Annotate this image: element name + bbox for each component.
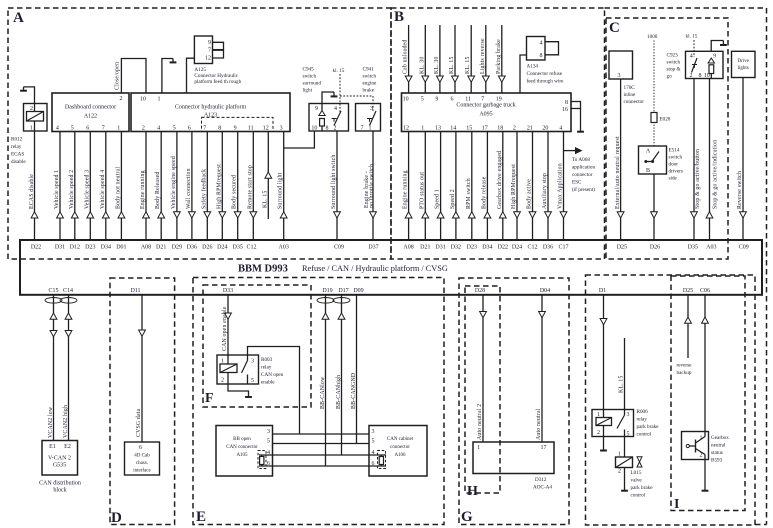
B593 internal symbol [686, 444, 689, 447]
svg-text:KL. 30: KL. 30 [434, 56, 440, 74]
switch C941 box [356, 104, 381, 132]
svg-text:High RPMrequest: High RPMrequest [511, 164, 517, 209]
svg-text:21: 21 [527, 125, 533, 131]
connector A105 box [216, 426, 273, 477]
svg-text:D34: D34 [101, 244, 111, 250]
svg-text:8: 8 [565, 100, 568, 106]
arrow down reverse switch [740, 212, 747, 218]
wire Close/open bridge [121, 59, 146, 94]
A125 jumper bracket 9-7 [213, 42, 224, 49]
svg-text:B: B [394, 9, 404, 25]
arrow down CAN open enable [225, 313, 232, 319]
svg-text:5: 5 [173, 125, 176, 131]
svg-text:surround: surround [303, 81, 322, 87]
arrow down E514 wire [651, 212, 658, 218]
wire CAN row pin4 right [369, 454, 386, 456]
svg-text:6: 6 [86, 125, 89, 131]
branch to A068 ESC [564, 150, 576, 152]
A095 pins 8-16 jumper to feed [571, 102, 581, 109]
svg-text:side: side [669, 176, 678, 182]
svg-text:3: 3 [618, 73, 621, 79]
svg-text:A134: A134 [527, 64, 539, 70]
wire KL. 15 into A095 pin 11 [470, 25, 472, 93]
wire RPM switch to bus [471, 132, 473, 241]
svg-text:A: A [646, 149, 651, 155]
terminator dashed box A105 [258, 451, 266, 469]
wire Vehicle engine speed [176, 132, 178, 241]
svg-text:1: 1 [421, 125, 424, 131]
arrow down KL. 15 [468, 76, 475, 82]
arrow down VCAN2 low [50, 331, 57, 337]
arrow up Gearbox drive engaged [499, 212, 506, 218]
outer frame top-right [605, 7, 767, 9]
svg-text:Close/open: Close/open [115, 62, 121, 90]
svg-text:D26: D26 [650, 244, 660, 250]
svg-text:Connector refuse: Connector refuse [527, 70, 563, 77]
arrow up BB-CANhigh [338, 313, 345, 319]
svg-text:14: 14 [450, 125, 456, 131]
svg-text:9: 9 [234, 125, 237, 131]
svg-text:D11: D11 [130, 288, 140, 294]
feed symbol above R012 [23, 87, 25, 90]
arrow up RPM switch [468, 212, 475, 218]
svg-text:12: 12 [263, 125, 269, 131]
svg-text:6: 6 [139, 445, 142, 451]
C945 indicator column [321, 104, 323, 111]
R006 ground [603, 437, 605, 450]
wire A125 drop to A123 [187, 58, 195, 93]
wire Engine running [145, 132, 147, 241]
arrow dn Vmax Application [560, 212, 567, 218]
svg-text:D01: D01 [116, 244, 126, 250]
wire Vehicle speed 4 [105, 132, 107, 241]
svg-text:go: go [667, 74, 673, 80]
svg-text:control: control [637, 432, 652, 438]
svg-text:PTO status out: PTO status out [419, 172, 425, 209]
svg-text:1: 1 [597, 412, 600, 418]
svg-text:A08: A08 [403, 244, 413, 250]
svg-text:D31: D31 [55, 244, 65, 250]
svg-text:switch: switch [363, 74, 377, 80]
bus module BBM D993 box [20, 240, 762, 295]
svg-text:D25: D25 [683, 288, 693, 294]
arrow down auto neutral [539, 312, 546, 318]
wire C941 pin1 to D37 [372, 131, 374, 240]
wire Body active to bus [532, 132, 534, 241]
arrow down engine brake [370, 212, 377, 218]
arrow dn Safety feedback [204, 212, 211, 218]
connector A106 box [369, 426, 427, 477]
wire PTO status out to bus [424, 132, 426, 241]
svg-text:High RPMrequest: High RPMrequest [216, 164, 222, 209]
wire Surround light pin3 to A03 [283, 132, 285, 241]
svg-text:8: 8 [218, 125, 221, 131]
wire feed to R012 pin 2 [24, 87, 35, 104]
svg-text:control: control [631, 493, 646, 499]
svg-text:1: 1 [117, 125, 120, 131]
svg-text:A095: A095 [479, 112, 492, 118]
svg-text:C12: C12 [246, 244, 256, 250]
svg-text:4: 4 [157, 125, 160, 131]
svg-text:5: 5 [251, 378, 254, 384]
svg-text:Vehicle speed 2: Vehicle speed 2 [69, 170, 75, 209]
svg-text:D35: D35 [688, 244, 698, 250]
svg-text:Wall connection: Wall connection [186, 168, 192, 209]
svg-text:BB-CANGND: BB-CANGND [351, 373, 357, 409]
svg-text:1: 1 [369, 125, 372, 131]
wire C945 pin2 to C09 [336, 131, 338, 240]
svg-text:G: G [461, 509, 473, 525]
wire Gearbox drive engaged to bus [502, 132, 504, 241]
svg-text:brake: brake [363, 88, 375, 94]
svg-text:5: 5 [372, 439, 375, 445]
svg-text:A106: A106 [394, 453, 406, 458]
svg-text:BB-CANhigh: BB-CANhigh [336, 375, 342, 409]
svg-text:(if present): (if present) [572, 186, 595, 193]
wire C923 pin9 to feed [711, 41, 723, 52]
wire Vmax Application to bus [563, 132, 565, 241]
wire C923 pin10 to A03 [709, 79, 711, 241]
svg-text:B593: B593 [711, 458, 723, 464]
svg-text:12: 12 [403, 125, 409, 131]
switch C923 box [686, 51, 724, 78]
wire KL15 stub from A123 pin12 [267, 132, 269, 220]
section frame H [465, 286, 500, 493]
svg-text:L015: L015 [631, 470, 642, 476]
svg-text:D31: D31 [435, 244, 445, 250]
svg-text:17: 17 [541, 445, 547, 451]
svg-text:CAN connector: CAN connector [226, 445, 258, 450]
svg-text:Dashboard connector: Dashboard connector [65, 105, 116, 111]
arrow down Cab unloaded [405, 76, 412, 82]
svg-text:interface: interface [133, 469, 151, 474]
svg-text:Vehicle speed 1: Vehicle speed 1 [54, 170, 60, 209]
relay R012 coil [27, 112, 44, 122]
svg-text:block: block [53, 488, 66, 494]
svg-text:R006: R006 [637, 409, 649, 415]
svg-text:feed through wire: feed through wire [527, 78, 565, 85]
wire VCAN2 low C15 [53, 295, 55, 441]
svg-text:Gearbox drive engaged: Gearbox drive engaged [497, 151, 503, 209]
wire Body not neutral [120, 132, 122, 241]
wire Auxiliary stop to bus [547, 132, 549, 241]
svg-text:D33: D33 [223, 288, 233, 294]
A134 jumper bracket [545, 42, 559, 55]
arrow up Engine running [405, 212, 412, 218]
svg-text:C09: C09 [334, 244, 344, 250]
svg-text:3: 3 [627, 412, 630, 418]
svg-text:7: 7 [361, 125, 364, 131]
svg-text:C945: C945 [303, 67, 315, 73]
wire branch A123 pin3 to C945 pin10 [284, 131, 315, 148]
svg-text:C09: C09 [739, 244, 749, 250]
svg-text:5: 5 [71, 125, 74, 131]
wire reverse backup D25 [687, 295, 689, 358]
wire KL. 30 into A095 pin 9 [439, 25, 441, 93]
svg-text:9: 9 [208, 40, 211, 46]
arrow up KL15 stub [265, 172, 272, 178]
svg-text:2: 2 [334, 125, 337, 131]
svg-text:D37: D37 [368, 244, 378, 250]
svg-text:D26: D26 [202, 244, 212, 250]
svg-text:D21: D21 [156, 244, 166, 250]
svg-text:D22: D22 [498, 244, 508, 250]
svg-text:2: 2 [597, 430, 600, 436]
svg-text:door: door [669, 162, 679, 168]
svg-text:D12: D12 [70, 244, 80, 250]
arrow up BB-CANlow [322, 313, 329, 319]
arrow up Vehicle speed 2 [71, 212, 78, 218]
svg-text:E2: E2 [64, 444, 71, 450]
svg-text:D17: D17 [338, 288, 348, 294]
feed symbol near A123 pin 1 [172, 59, 174, 62]
svg-text:A03: A03 [706, 244, 716, 250]
arrow up ECAS disable [31, 212, 38, 218]
wire Vehicle speed 3 [89, 132, 91, 241]
svg-text:D312: D312 [535, 477, 547, 483]
svg-text:relay: relay [261, 365, 272, 371]
wire Vehicle speed 2 [74, 132, 76, 241]
svg-text:4D Cab: 4D Cab [134, 454, 150, 459]
svg-text:Auxiliary stop: Auxiliary stop [542, 173, 548, 209]
svg-text:I: I [674, 497, 679, 512]
relay R006 box [592, 410, 634, 437]
svg-text:backup: backup [677, 370, 692, 376]
arrow down VCAN2 high [65, 331, 72, 337]
svg-text:KL. 15: KL. 15 [465, 56, 471, 74]
svg-text:B: B [646, 168, 650, 174]
section frame D [110, 278, 175, 525]
R006 coil [596, 418, 612, 426]
svg-text:chass.: chass. [136, 461, 148, 466]
arrow up Speed 1 [437, 212, 444, 218]
svg-text:CAN distribution: CAN distribution [39, 481, 81, 487]
svg-text:2: 2 [221, 378, 224, 384]
svg-text:kl. 15: kl. 15 [333, 68, 345, 74]
arrow down external/auto neutral [617, 212, 624, 218]
svg-text:connector: connector [572, 172, 593, 178]
arrow up Body release [484, 212, 491, 218]
section frame right (park brake) [586, 275, 756, 525]
wire external/auto neutral request to D25 [620, 79, 622, 240]
svg-text:20: 20 [542, 125, 548, 131]
svg-text:Vmax Application: Vmax Application [558, 163, 564, 209]
wire KL. 15 into A095 pin 6 [454, 25, 456, 93]
svg-text:D09: D09 [353, 288, 363, 294]
svg-text:Speed 1: Speed 1 [435, 189, 441, 209]
relay R012 box [24, 104, 48, 132]
arrow dn Auxiliary stop [545, 212, 552, 218]
terminator resistor A106 [380, 455, 382, 466]
svg-text:C17: C17 [558, 244, 568, 250]
wire R003 pin3 to A105 pin3 [248, 347, 300, 435]
connector A122 box [52, 93, 129, 132]
arrow down surround light switch [334, 212, 341, 218]
svg-text:10: 10 [311, 125, 317, 131]
svg-text:Auto neutral 2: Auto neutral 2 [477, 404, 483, 440]
svg-text:KL. 15: KL. 15 [449, 56, 455, 74]
svg-text:Connector garbage truck: Connector garbage truck [456, 103, 515, 109]
wire Lights reverse into A095 pin 7 [485, 25, 487, 93]
arrow dn Body active [529, 212, 536, 218]
svg-text:D19: D19 [322, 288, 332, 294]
svg-text:3: 3 [370, 106, 373, 112]
svg-text:CAN open enable: CAN open enable [222, 306, 228, 351]
svg-text:KL. 15: KL. 15 [619, 375, 625, 393]
svg-text:Auto neutral: Auto neutral [536, 408, 542, 440]
svg-text:VCAN2 high: VCAN2 high [63, 405, 69, 438]
svg-text:Lights reverse: Lights reverse [480, 38, 486, 74]
outer frame right edge [766, 8, 768, 525]
C945 switch lever [334, 111, 341, 126]
wire Wall connection [191, 132, 193, 241]
svg-text:Surround light: Surround light [278, 172, 284, 209]
svg-text:C923: C923 [667, 53, 679, 59]
wire CAN row pin6 [259, 465, 369, 467]
svg-text:2: 2 [120, 96, 123, 102]
wire CAN row pin5 [273, 443, 370, 445]
svg-text:E1: E1 [49, 444, 56, 450]
switch E514 box [639, 146, 667, 174]
svg-text:D35: D35 [233, 244, 243, 250]
outer frame bottom-right [755, 524, 767, 526]
svg-text:Vehicle engine speed: Vehicle engine speed [171, 156, 177, 209]
wire VCAN2 high C14 [68, 295, 70, 441]
svg-text:C14: C14 [63, 288, 73, 294]
kl15 dashed wire into C945 [339, 74, 341, 112]
svg-text:1: 1 [30, 126, 33, 132]
wire Engine running to bus [408, 132, 410, 241]
svg-text:KL. 15: KL. 15 [262, 190, 268, 208]
svg-text:Vehicle speed 3: Vehicle speed 3 [84, 170, 90, 209]
connector 170C box [609, 51, 633, 79]
valve L015 box [616, 457, 633, 468]
wire BB-CANhigh D17 [341, 295, 343, 455]
wire CAN open enable D33 [227, 295, 229, 355]
svg-text:To A068: To A068 [572, 157, 590, 163]
wire Vehicle speed 1 [59, 132, 61, 241]
svg-text:enable: enable [261, 380, 275, 386]
svg-text:1: 1 [477, 445, 480, 451]
svg-text:2: 2 [142, 125, 145, 131]
svg-text:170C: 170C [624, 85, 636, 91]
arrow dn Wall connection [189, 212, 196, 218]
svg-text:V-CAN 2: V-CAN 2 [48, 456, 71, 462]
svg-text:2: 2 [30, 106, 33, 112]
svg-text:13: 13 [435, 125, 441, 131]
svg-text:Parking brake: Parking brake [496, 39, 502, 74]
section frame G [459, 278, 569, 525]
arrow up Speed 2 [453, 212, 460, 218]
wire BB-CANGND D09 [356, 295, 358, 444]
twisted pair symbol VCAN2 [45, 298, 62, 304]
svg-text:drivers: drivers [669, 169, 683, 175]
svg-text:platform feed th rough: platform feed th rough [194, 78, 241, 85]
svg-text:switch: switch [303, 74, 317, 80]
wire D1 to R006 [603, 295, 605, 410]
svg-text:lights: lights [738, 66, 749, 71]
arrow up VCAN2 low [50, 313, 57, 319]
svg-text:D21: D21 [420, 244, 430, 250]
svg-text:A08: A08 [141, 244, 151, 250]
4D cab interface box [125, 442, 160, 475]
wire A123 pin1 to feed [162, 59, 173, 94]
wire C06 to B593 [704, 295, 706, 432]
svg-text:3: 3 [267, 429, 270, 435]
wire CAN row pin4 [259, 454, 369, 456]
svg-text:Engine running: Engine running [403, 170, 409, 209]
wire KL15 to R006 pin3 [624, 338, 626, 410]
svg-text:9: 9 [315, 106, 318, 112]
wire E514 B to D26 [653, 174, 655, 240]
connector A125 box [194, 36, 212, 64]
svg-text:E028: E028 [660, 117, 671, 123]
arrow dn Remote start stop [250, 212, 257, 218]
svg-text:A03: A03 [279, 244, 289, 250]
svg-text:7: 7 [102, 125, 105, 131]
wire Parking brake into A095 pin 19 [501, 25, 503, 93]
kl15 dashed wire into C923 [693, 40, 695, 57]
svg-text:Body secured: Body secured [232, 175, 238, 209]
svg-text:Stop & go active/indication: Stop & go active/indication [712, 140, 718, 209]
svg-text:D24: D24 [512, 244, 522, 250]
svg-text:D36: D36 [187, 244, 197, 250]
svg-text:2: 2 [618, 469, 621, 475]
svg-text:Gearbox: Gearbox [711, 435, 729, 441]
svg-text:park brake: park brake [637, 424, 660, 430]
arrow up PTO status out [422, 212, 429, 218]
A123 inner dashed pin group [202, 117, 274, 131]
wire Body secured [237, 132, 239, 241]
svg-text:connector: connector [390, 445, 410, 450]
relay R003 box [217, 355, 259, 384]
wire Body Released [160, 132, 162, 241]
svg-text:D24: D24 [217, 244, 227, 250]
section frame E [193, 278, 444, 525]
svg-text:C12: C12 [527, 244, 537, 250]
svg-text:Drive: Drive [738, 59, 750, 64]
svg-text:Vehicle speed 4: Vehicle speed 4 [100, 170, 106, 209]
arrow up Engine running [143, 212, 150, 218]
R006 internal wires [603, 410, 605, 418]
R003 internal wires [227, 355, 229, 364]
svg-text:A: A [13, 10, 24, 26]
terminator resistor A105 [261, 455, 263, 466]
svg-text:1: 1 [158, 97, 161, 103]
svg-text:2: 2 [690, 73, 693, 79]
svg-text:7: 7 [203, 125, 206, 131]
svg-text:16: 16 [562, 107, 568, 113]
arrow down D1 wire [600, 319, 607, 325]
svg-text:9: 9 [713, 54, 716, 60]
arrow up Vehicle speed 3 [87, 212, 94, 218]
svg-text:D1: D1 [599, 288, 606, 294]
svg-text:3: 3 [251, 359, 254, 365]
svg-text:Surround light switch: Surround light switch [331, 155, 337, 209]
svg-text:4: 4 [334, 106, 337, 112]
wire Speed 1 to bus [440, 132, 442, 241]
R003 coil [220, 364, 237, 373]
connector A134 box [527, 37, 546, 61]
svg-text:D04: D04 [540, 288, 550, 294]
arrow dn High RPMrequest [514, 212, 521, 218]
R003 ground run [228, 384, 249, 396]
svg-text:neutral: neutral [711, 443, 726, 449]
svg-text:ECAS disable: ECAS disable [29, 174, 35, 209]
wire ECAS disable R012 to D22 [34, 131, 36, 240]
svg-text:8: 8 [326, 125, 329, 131]
svg-text:A122: A122 [84, 114, 97, 120]
